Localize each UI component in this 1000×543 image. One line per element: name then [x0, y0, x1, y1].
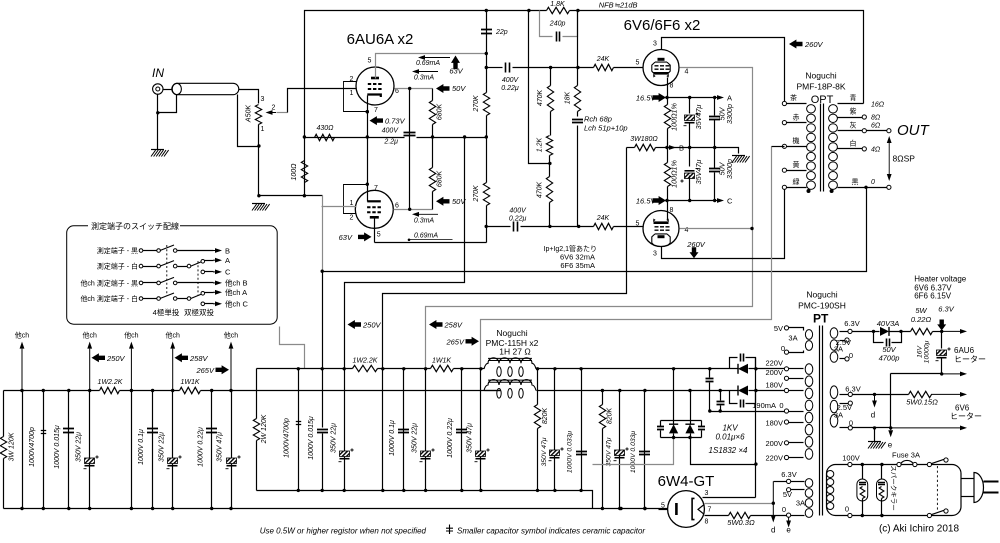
PT W1 right winding	[830, 328, 838, 339]
wire jack tip to cable	[164, 89, 172, 91]
svg-text:3: 3	[653, 41, 657, 48]
svg-text:63V: 63V	[449, 67, 463, 76]
PT 5V winding	[805, 330, 812, 340]
svg-text:C: C	[225, 268, 231, 277]
phase dots	[807, 189, 811, 193]
svg-text:18K: 18K	[564, 91, 571, 104]
svg-text:5V: 5V	[774, 324, 783, 333]
svg-text:0.22μ: 0.22μ	[509, 215, 527, 222]
tube V5 6W4	[668, 491, 705, 528]
divider 1.2K	[529, 11, 550, 164]
svg-text:400V: 400V	[509, 207, 527, 214]
svg-text:他ch 測定端子 - 黒: 他ch 測定端子 - 黒	[80, 279, 138, 288]
svg-text:3300p: 3300p	[725, 104, 734, 124]
capacitor 1000V 0.22u main	[461, 369, 463, 491]
svg-text:他ch: 他ch	[82, 331, 96, 340]
svg-text:2.2μ: 2.2μ	[383, 139, 398, 146]
capacitor 50V3300p lower	[714, 148, 716, 169]
svg-text:6.3V: 6.3V	[938, 305, 954, 314]
svg-text:250V: 250V	[362, 321, 382, 330]
diode D1 with snubber	[738, 364, 748, 374]
svg-text:16.5V: 16.5V	[636, 197, 657, 206]
svg-text:4極単投: 4極単投	[153, 307, 180, 317]
svg-text:100Ω: 100Ω	[291, 163, 298, 181]
svg-text:他ch: 他ch	[224, 331, 238, 340]
svg-text:5W: 5W	[915, 306, 927, 315]
wire bridge bottom left return	[593, 438, 674, 465]
svg-text:1S1832 ×4: 1S1832 ×4	[709, 446, 748, 455]
svg-text:A: A	[727, 93, 732, 102]
capacitor 1000V 0.1u main	[403, 369, 405, 491]
wire heater row2	[891, 373, 942, 375]
wire heater row4 0	[853, 427, 891, 429]
svg-text:0: 0	[849, 351, 853, 360]
svg-text:1000V 0.033μ: 1000V 0.033μ	[630, 431, 637, 474]
resistor 430ohm	[315, 134, 335, 140]
svg-text:他ch A: 他ch A	[225, 287, 247, 297]
capacitor 350V47u g1	[554, 369, 556, 491]
svg-text:双極双投: 双極双投	[184, 307, 214, 317]
resistor 3W180ohm	[635, 144, 656, 150]
svg-text:3: 3	[261, 96, 265, 103]
wire screens tie	[409, 89, 411, 210]
svg-text:270K: 270K	[473, 185, 480, 203]
resistor 1W2.2K main	[353, 365, 378, 371]
OPT secondary 4ohm tap	[838, 148, 863, 150]
capacitor Rch 68p	[572, 120, 583, 123]
svg-text:黒: 黒	[852, 178, 859, 186]
wire rail2 to rectifier	[537, 390, 739, 392]
svg-text:3300p: 3300p	[725, 159, 734, 179]
arrow 265V	[466, 337, 480, 346]
svg-text:400V: 400V	[502, 77, 520, 84]
svg-text:Noguchi: Noguchi	[805, 70, 836, 80]
svg-text:機: 機	[793, 136, 800, 145]
svg-text:他ch: 他ch	[15, 331, 29, 340]
wire V2 screen row	[394, 209, 433, 211]
note ceramic	[446, 525, 453, 535]
svg-text:5W0.15Ω: 5W0.15Ω	[906, 397, 938, 406]
capacitor snubber D3	[660, 421, 662, 427]
svg-text:6V6/6F6 x2: 6V6/6F6 x2	[624, 17, 701, 34]
capacitor 1000V 0.033u g1	[581, 369, 583, 491]
PT tap 220V lower	[784, 455, 788, 459]
PT tap 200V lower	[784, 441, 788, 445]
svg-text:他ch: 他ch	[124, 331, 138, 340]
svg-text:3A: 3A	[796, 499, 805, 508]
wire jack sleeve down	[157, 95, 159, 150]
wire CT row 190mA	[710, 411, 787, 413]
svg-text:820K: 820K	[542, 408, 549, 425]
svg-text:Heater voltage: Heater voltage	[914, 275, 967, 284]
svg-text:0.69mA: 0.69mA	[416, 60, 440, 67]
svg-text:240p: 240p	[549, 20, 566, 27]
AC plug	[962, 478, 975, 480]
arrow 250V left	[92, 353, 106, 362]
label 0.3mA lower	[419, 213, 438, 215]
svg-text:258V: 258V	[444, 321, 464, 330]
svg-text:16V: 16V	[916, 344, 923, 358]
wire V4 plate	[662, 190, 785, 259]
resistor 1.8K	[547, 7, 570, 13]
svg-text:1000V 0.015μ: 1000V 0.015μ	[308, 416, 315, 460]
svg-text:16.5V: 16.5V	[636, 94, 657, 103]
arrow 258V left	[175, 353, 189, 362]
wire V1 plate	[376, 54, 487, 79]
diode 40V3A	[880, 327, 889, 336]
wire e arrow bottom	[788, 517, 790, 520]
PT primary winding bumps	[827, 470, 834, 477]
wire V3 cathode	[667, 78, 669, 98]
svg-text:6.3V: 6.3V	[781, 470, 796, 479]
svg-text:270K: 270K	[473, 95, 480, 113]
svg-text:赤: 赤	[793, 113, 800, 121]
resistor 2W120K bleeder	[256, 369, 258, 419]
svg-text:1: 1	[350, 90, 354, 97]
svg-text:3: 3	[653, 251, 657, 258]
potentiometer A50K	[255, 105, 261, 125]
svg-text:3W 120K: 3W 120K	[9, 432, 16, 461]
resistor 270K lower	[486, 138, 488, 183]
choke L2	[484, 380, 536, 391]
svg-text:6AU6: 6AU6	[954, 346, 975, 355]
svg-text:8: 8	[670, 207, 674, 214]
PT tap 0 190mA	[784, 409, 788, 413]
OPT secondary 6ohm tap OUT	[838, 130, 863, 132]
wire bus1	[257, 491, 593, 509]
svg-text:Smaller capacitor symbol indic: Smaller capacitor symbol indicates ceram…	[457, 526, 645, 535]
svg-text:6W4-GT: 6W4-GT	[658, 473, 715, 490]
divider 470K upper	[550, 68, 552, 86]
svg-text:e: e	[888, 441, 893, 450]
svg-text:35V47μ: 35V47μ	[694, 105, 703, 130]
wire HV riser to 6W4 plate	[755, 358, 757, 498]
svg-text:OUT: OUT	[897, 122, 931, 139]
ground node hatch	[252, 203, 265, 205]
pot wiper 2	[273, 112, 277, 114]
svg-text:PMC-190SH: PMC-190SH	[798, 301, 846, 311]
resistor 1W1K left	[180, 387, 201, 393]
OPT secondary 16ohm tap	[838, 103, 864, 105]
wire d arrow bottom	[774, 481, 787, 483]
svg-text:1000V 0.033μ: 1000V 0.033μ	[566, 431, 573, 474]
tap other ch 1	[21, 349, 23, 391]
svg-text:1000V 0.22μ: 1000V 0.22μ	[447, 418, 454, 458]
svg-text:350V 22μ: 350V 22μ	[75, 432, 82, 462]
svg-text:0: 0	[781, 344, 785, 353]
resistor 5W0.3 heater	[705, 515, 729, 517]
svg-text:d: d	[871, 410, 875, 419]
svg-text:260V: 260V	[804, 40, 824, 49]
svg-text:1.8K: 1.8K	[550, 1, 565, 8]
svg-text:A50K: A50K	[245, 105, 252, 123]
varistor 2 spark killer	[881, 465, 883, 480]
shielded cable	[172, 83, 239, 94]
svg-text:他ch: 他ch	[165, 331, 179, 340]
wire heater row1	[853, 331, 880, 333]
capacitor 1000V 0.015u main	[317, 430, 328, 433]
wire V4 cathode	[667, 201, 669, 221]
terminal 100V	[848, 462, 852, 466]
capacitor 1000V4700p main	[298, 369, 300, 491]
svg-text:6.3V: 6.3V	[845, 384, 860, 393]
OPT tap midori green	[782, 185, 786, 189]
svg-text:e: e	[786, 526, 791, 535]
svg-text:190mA: 190mA	[752, 401, 776, 410]
svg-text:10000μ: 10000μ	[923, 340, 930, 363]
svg-text:35V47μ: 35V47μ	[694, 160, 703, 185]
divider 470K lower	[546, 177, 552, 203]
svg-text:0.22μ: 0.22μ	[501, 85, 519, 92]
svg-text:680K: 680K	[437, 104, 444, 121]
resistor 680K upper	[432, 89, 434, 101]
wire ground row	[259, 195, 323, 197]
svg-text:200V: 200V	[765, 368, 783, 377]
svg-text:5: 5	[636, 221, 640, 228]
svg-text:Lch 51p+10p: Lch 51p+10p	[584, 124, 628, 133]
OPT tap cha brown	[782, 101, 786, 105]
wire V2 plate from row137	[367, 138, 369, 202]
svg-text:350V 47μ: 350V 47μ	[606, 437, 613, 466]
svg-text:1: 1	[261, 126, 265, 133]
svg-text:0: 0	[779, 401, 783, 410]
ground heater	[874, 428, 876, 442]
svg-text:Fuse 3A: Fuse 3A	[892, 451, 920, 460]
svg-text:黄: 黄	[793, 160, 800, 169]
switch gang dashed	[936, 466, 938, 513]
wire shield to pot bottom	[238, 95, 259, 147]
svg-text:2W 120K: 2W 120K	[261, 414, 268, 444]
svg-text:測定端子 - 黒: 測定端子 - 黒	[97, 246, 138, 255]
OPT tap aka red	[782, 121, 786, 125]
resistor 5W0.15	[909, 391, 932, 397]
wire cathode row A	[668, 97, 715, 99]
svg-text:680K: 680K	[437, 171, 444, 188]
svg-text:灰: 灰	[850, 120, 857, 129]
arrow 50V upper	[436, 84, 450, 93]
capacitor 35V47u upper	[689, 98, 691, 114]
capacitor 1000V 0.1u left	[152, 391, 154, 509]
wire NFB rail	[305, 11, 547, 138]
svg-text:22p: 22p	[495, 29, 508, 36]
svg-text:測定端子のスイッチ配線: 測定端子のスイッチ配線	[91, 221, 179, 231]
wire V2 cathode to row242	[375, 242, 487, 244]
6W4 heater	[698, 505, 704, 514]
svg-text:350V 22μ: 350V 22μ	[330, 423, 337, 453]
wire heater row1 out	[942, 330, 960, 332]
svg-text:40V3A: 40V3A	[877, 319, 900, 328]
svg-text:1000V 0.015μ: 1000V 0.015μ	[54, 425, 61, 469]
svg-text:4: 4	[685, 69, 689, 76]
svg-text:1000V 0.1μ: 1000V 0.1μ	[138, 429, 145, 465]
svg-text:5: 5	[368, 58, 372, 65]
node rail junctions	[485, 9, 488, 12]
capacitor 350V22u left1	[89, 391, 91, 509]
svg-text:2: 2	[350, 215, 354, 222]
svg-text:0: 0	[871, 179, 875, 186]
arrow 16.5V upper	[653, 93, 667, 102]
svg-text:100V: 100V	[842, 454, 860, 463]
svg-text:470K: 470K	[537, 90, 544, 107]
svg-text:180V: 180V	[765, 419, 783, 428]
svg-text:220V: 220V	[765, 454, 783, 463]
diode D2 with snubber	[738, 386, 748, 396]
wire coupling row upper	[487, 67, 503, 69]
svg-text:茶: 茶	[790, 93, 797, 102]
resistor 1W2.2K left	[100, 387, 120, 393]
svg-text:5: 5	[636, 60, 640, 67]
svg-text:他ch B: 他ch B	[225, 278, 248, 288]
capacitor 22p	[486, 11, 488, 54]
svg-text:青: 青	[850, 93, 857, 102]
svg-text:6F6 35mA: 6F6 35mA	[560, 261, 595, 270]
svg-text:350V 47μ: 350V 47μ	[541, 437, 548, 466]
resistor 24K upper	[594, 64, 614, 70]
svg-text:1000V 0.22μ: 1000V 0.22μ	[197, 427, 204, 467]
capacitor 50V4700p	[874, 332, 884, 343]
svg-text:他ch 測定端子 - 白: 他ch 測定端子 - 白	[80, 294, 138, 303]
svg-text:8: 8	[670, 83, 674, 90]
wire V3 screen	[426, 68, 753, 369]
diode D3	[669, 424, 678, 433]
resistor 24K lower	[594, 223, 614, 229]
wire V4 screen	[680, 228, 753, 230]
svg-text:180V: 180V	[765, 380, 783, 389]
wire coupling row lower	[487, 226, 511, 228]
svg-text:4700p: 4700p	[879, 354, 900, 363]
svg-text:820K: 820K	[607, 408, 614, 425]
svg-text:NFB≒21dB: NFB≒21dB	[599, 1, 638, 10]
resistor 100ohm1% upper	[667, 98, 669, 105]
tube V4 6V6 lower	[643, 211, 679, 247]
PT tap 200V upper	[784, 376, 788, 380]
wire B+ line 265V	[481, 147, 772, 369]
wire 6W4 cathode to bus	[659, 509, 668, 511]
svg-text:1W2.2K: 1W2.2K	[98, 379, 123, 386]
svg-text:3A: 3A	[834, 410, 843, 419]
divider 18K	[577, 11, 579, 86]
svg-text:Noguchi: Noguchi	[496, 328, 527, 338]
svg-text:0.69mA: 0.69mA	[414, 233, 438, 240]
svg-text:0.01μ×6: 0.01μ×6	[715, 433, 745, 442]
ground measure net	[732, 155, 745, 157]
svg-text:0: 0	[782, 505, 786, 514]
svg-text:ヒーター: ヒーター	[954, 355, 986, 364]
svg-text:265V: 265V	[445, 337, 465, 346]
capacitor line filter 1	[709, 369, 711, 378]
capacitor 2.2u 400V	[404, 133, 416, 136]
svg-text:200V: 200V	[765, 439, 783, 448]
svg-text:1H 27 Ω: 1H 27 Ω	[499, 347, 530, 357]
svg-text:1000V 0.1μ: 1000V 0.1μ	[389, 420, 396, 456]
bridge lower diodes 1S1832	[673, 369, 675, 421]
wire B measure drop	[382, 369, 384, 491]
svg-text:5W0.3Ω: 5W0.3Ω	[727, 518, 755, 527]
arrow 63V up	[451, 56, 460, 70]
svg-text:PMF-18P-8K: PMF-18P-8K	[796, 82, 845, 92]
svg-text:6Ω: 6Ω	[871, 123, 881, 130]
resistor 270K upper	[483, 93, 489, 116]
wire sleeve to shield	[158, 95, 177, 113]
capacitor 350V47u left	[231, 391, 233, 509]
wire wiper to grid riser	[277, 112, 288, 114]
capacitor 350V22u left2	[172, 391, 174, 509]
capacitor 350V22u main1	[344, 369, 346, 491]
svg-text:470K: 470K	[536, 182, 543, 199]
capacitor 350V47u main	[480, 369, 482, 491]
wire V1 cathode	[367, 96, 369, 138]
wire rail1 diode junctions	[672, 367, 675, 370]
svg-text:350V 47μ: 350V 47μ	[467, 423, 474, 453]
svg-text:0.3mA: 0.3mA	[414, 217, 435, 224]
svg-text:250V: 250V	[106, 354, 126, 363]
arrow e mid	[890, 428, 892, 430]
PT tap 220V upper	[784, 367, 788, 371]
svg-text:6F6 6.15V: 6F6 6.15V	[914, 292, 952, 301]
capacitor 350V22u main2	[425, 369, 427, 491]
svg-text:7: 7	[708, 507, 712, 514]
svg-text:Rch 68p: Rch 68p	[584, 115, 612, 124]
svg-text:0: 0	[849, 418, 853, 427]
OPT tap center orange B+	[782, 144, 786, 148]
wire bridge bottom right to plate riser	[691, 438, 756, 465]
svg-text:1000V4700p: 1000V4700p	[29, 427, 36, 467]
svg-text:紫: 紫	[850, 108, 857, 116]
transformer OPT primary coil	[807, 105, 816, 113]
PT tap 180V lower	[784, 420, 788, 424]
arrow 260V upper	[789, 40, 803, 49]
svg-text:3A: 3A	[834, 345, 843, 354]
svg-text:OPT: OPT	[811, 94, 834, 106]
wire row B	[627, 147, 635, 149]
svg-text:0.22Ω: 0.22Ω	[911, 315, 932, 324]
capacitor 350V47u g2	[619, 391, 621, 509]
wire V3 plate	[662, 38, 785, 102]
svg-text:IN: IN	[152, 66, 164, 80]
switch top	[927, 462, 931, 466]
arrow d mid	[874, 394, 876, 400]
capacitor 1000V4700p left	[43, 391, 45, 509]
svg-text:8ΩSP: 8ΩSP	[893, 154, 916, 164]
svg-text:350V 22μ: 350V 22μ	[158, 432, 165, 462]
arrow 16.5V lower	[653, 196, 667, 205]
PT 6.3V-5V winding bottom left	[805, 479, 813, 488]
svg-text:A: A	[225, 256, 230, 265]
svg-text:258V: 258V	[189, 354, 209, 363]
switch bottom	[927, 513, 931, 517]
svg-text:PT: PT	[813, 312, 829, 326]
wire rail2	[4, 390, 100, 392]
arrow 265V left	[216, 365, 230, 374]
svg-text:C: C	[727, 196, 733, 205]
svg-text:スパークキラー: スパークキラー	[890, 465, 898, 511]
6W4 plate	[692, 498, 694, 519]
capacitor 1000V 0.015u left	[68, 391, 70, 509]
switch wiring box	[67, 226, 278, 324]
wire cable core to pot	[239, 90, 259, 104]
svg-text:5V: 5V	[783, 490, 792, 499]
arrow 250V	[348, 320, 362, 329]
tube V2 6AU6 lower	[355, 190, 393, 228]
wire grid box V2	[344, 185, 368, 214]
capacitor 16V10000u	[941, 332, 943, 349]
svg-text:100Ω1%: 100Ω1%	[670, 102, 679, 130]
resistor 5W0.22	[911, 328, 933, 334]
svg-text:d: d	[771, 526, 775, 535]
svg-text:B: B	[225, 246, 230, 255]
resistor 820K g1	[537, 369, 539, 405]
svg-text:63V: 63V	[339, 233, 353, 242]
